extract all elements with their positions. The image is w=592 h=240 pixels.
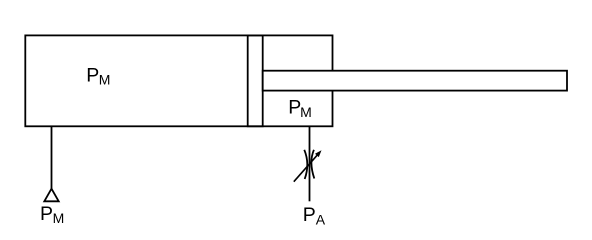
label PM right chamber	[288, 96, 312, 120]
svg-text:P: P	[86, 64, 99, 86]
svg-text:P: P	[303, 204, 316, 226]
arrowhead	[315, 150, 322, 157]
cylinder body	[25, 35, 332, 126]
wire right drop	[309, 126, 311, 201]
throttle adjust arrow	[294, 155, 318, 182]
svg-text:P: P	[40, 203, 53, 225]
svg-text:M: M	[300, 104, 312, 120]
pressure source triangle	[44, 189, 58, 202]
svg-text:A: A	[316, 212, 326, 228]
label PM bottom left	[40, 203, 64, 226]
label PM left chamber	[86, 64, 110, 87]
svg-text:M: M	[99, 72, 111, 88]
throttle valve arcs	[304, 150, 307, 179]
piston	[248, 35, 263, 126]
wire left drop	[51, 126, 53, 189]
label PA	[303, 204, 326, 228]
piston rod	[263, 71, 567, 91]
svg-text:M: M	[53, 210, 65, 226]
